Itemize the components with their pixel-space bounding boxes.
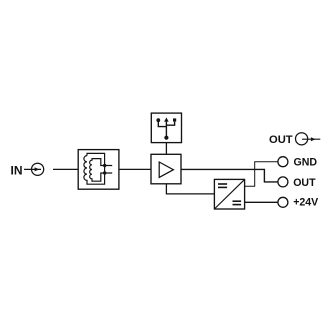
- USB symbol bottom dot: [164, 136, 168, 140]
- output signal circle: [296, 133, 308, 145]
- wire USB box to amplifier: [165, 143, 167, 155]
- DC/DC upper equals sign: [218, 183, 227, 185]
- svg-text:OUT: OUT: [293, 177, 316, 189]
- transformer secondary winding: [90, 159, 113, 182]
- wire DC/DC to GND terminal: [245, 162, 279, 187]
- USB symbol right branch: [166, 122, 174, 126]
- junction dot upper tap: [103, 164, 106, 167]
- arrowhead into input circle: [35, 167, 40, 171]
- wire IN lead: [24, 168, 41, 170]
- terminal circle OUT: [278, 177, 288, 187]
- DC/DC diagonal: [214, 179, 244, 209]
- svg-text:IN: IN: [11, 163, 23, 177]
- wire transformer to amplifier: [119, 168, 151, 170]
- svg-text:GND: GND: [294, 157, 318, 169]
- USB symbol left branch: [158, 122, 166, 127]
- svg-text:+24V: +24V: [293, 197, 318, 209]
- junction dot lower tap: [103, 171, 106, 174]
- output arrowhead: [311, 137, 316, 141]
- svg-text:OUT: OUT: [269, 134, 293, 146]
- output arrow line: [302, 138, 320, 140]
- USB symbol stem: [165, 120, 167, 138]
- input signal source circle: [31, 163, 43, 175]
- terminal circle +24V: [278, 197, 288, 207]
- wire input to transformer: [53, 168, 78, 170]
- USB symbol left dot: [156, 118, 160, 122]
- amplifier triangle: [159, 162, 173, 177]
- USB symbol top arrow: [164, 118, 169, 122]
- DC/DC converter box: [214, 179, 244, 209]
- USB symbol right square: [173, 118, 176, 121]
- wire DC/DC to +24V terminal: [245, 201, 279, 203]
- wire amplifier output to OUT terminal: [181, 169, 278, 182]
- DC/DC lower equals sign: [233, 200, 242, 202]
- transformer T1 box: [78, 150, 119, 190]
- terminal circle GND: [278, 157, 288, 167]
- amplifier U1 box: [151, 154, 181, 184]
- wire amplifier to DC/DC converter: [166, 184, 214, 194]
- USB interface box: [151, 113, 181, 143]
- transformer primary winding: [84, 153, 105, 184]
